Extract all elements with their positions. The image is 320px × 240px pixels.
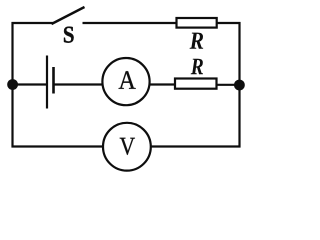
wire: right vertical: [238, 22, 240, 148]
ammeter A (circle): [102, 58, 149, 105]
wire: bottom horizontal left of voltmeter: [12, 145, 105, 147]
wire: top horizontal right of R1: [217, 22, 241, 24]
wire: top horizontal left of switch: [12, 22, 54, 24]
wire: battery to ammeter: [54, 83, 104, 85]
wire: middle from left node to battery: [13, 83, 47, 85]
voltmeter V (circle): [103, 123, 151, 171]
switch S (open blade): [52, 7, 85, 24]
wire: left vertical: [11, 22, 13, 148]
wire: R2 to right node: [217, 84, 240, 86]
battery (cell): short plate: [52, 67, 55, 94]
label R (middle resistor): [191, 59, 203, 75]
label V: [120, 138, 135, 155]
battery (cell): long plate: [46, 56, 48, 109]
wire: top horizontal right of switch: [83, 22, 178, 24]
wire: bottom horizontal right of voltmeter: [150, 145, 241, 147]
resistor R1 (top): [177, 18, 217, 28]
label R (top resistor): [190, 33, 204, 49]
label A: [119, 71, 136, 89]
resistor R2 (middle): [175, 79, 217, 89]
junction node (left): [7, 79, 18, 90]
wire: ammeter to R2: [149, 83, 176, 85]
label S: [64, 27, 74, 43]
junction node (right): [234, 80, 245, 91]
